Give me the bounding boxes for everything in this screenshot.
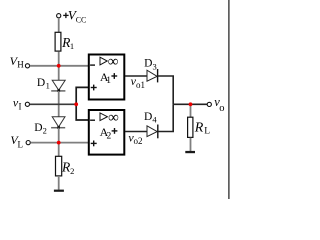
node VL junction [57, 141, 61, 145]
svg-text:D: D [144, 57, 152, 69]
node output junction [189, 102, 193, 106]
wire R2 to ground [58, 176, 60, 190]
svg-text:2: 2 [70, 166, 74, 176]
node vI junction [74, 102, 78, 106]
label vI [13, 95, 22, 111]
label vo2 [128, 131, 142, 147]
wire D4 to output bus [158, 104, 173, 131]
svg-text:1: 1 [70, 41, 74, 51]
wire node VL to A2 noninverting input [59, 142, 89, 144]
svg-text:o1: o1 [136, 80, 145, 90]
label +VCC [63, 7, 86, 24]
svg-text:1: 1 [46, 81, 50, 91]
diode D3 [147, 69, 158, 82]
label vo [214, 95, 224, 114]
diode D2 [51, 117, 65, 129]
label D3 [144, 57, 157, 71]
resistor R2 [56, 156, 62, 176]
svg-text:H: H [17, 60, 24, 70]
svg-text:L: L [204, 127, 210, 137]
svg-text:D: D [37, 77, 45, 89]
svg-text:3: 3 [153, 61, 157, 71]
svg-text:∞: ∞ [108, 54, 119, 70]
terminal +VCC [57, 14, 61, 18]
resistor R1 [55, 32, 61, 51]
wire R1 to D1 through node VH [58, 52, 60, 81]
label R1 [61, 35, 74, 51]
wire output bus to terminal vo [173, 103, 207, 105]
svg-text:D: D [34, 122, 42, 134]
svg-text:2: 2 [107, 131, 112, 141]
label R2 [61, 159, 74, 175]
svg-text:4: 4 [152, 114, 157, 124]
op-amp A1 [89, 54, 125, 99]
wire A1 output to D3 [125, 75, 147, 77]
terminal VL [26, 141, 30, 145]
terminal vo [207, 102, 211, 106]
svg-text:o2: o2 [134, 136, 143, 146]
label VH [10, 54, 25, 70]
resistor RL [188, 117, 193, 137]
svg-text:o: o [219, 103, 224, 114]
label D2 [34, 122, 47, 136]
svg-text:R: R [194, 120, 204, 135]
svg-text:2: 2 [43, 125, 47, 135]
wire node vI down to A2 inverting input [76, 104, 88, 120]
svg-text:L: L [18, 139, 24, 149]
label RL [194, 120, 211, 136]
label D1 [37, 77, 50, 91]
wire D2 to R2 through node VL [58, 128, 60, 156]
wire D3 to output bus [158, 76, 174, 104]
svg-text:D: D [144, 111, 152, 123]
node VH junction [57, 64, 61, 68]
ground (RL) [185, 151, 195, 153]
svg-text:I: I [19, 101, 22, 111]
ground (R2) [54, 190, 64, 192]
wire vI terminal to node vI [30, 103, 76, 105]
op-amp A2 [89, 110, 125, 155]
wire node vI up to A1 noninverting input [76, 87, 88, 104]
wire output node to RL [190, 104, 192, 117]
wire node VH to A1 inverting input [59, 65, 89, 67]
svg-text:CC: CC [76, 15, 87, 24]
terminal VH [25, 64, 29, 68]
diode D4 [147, 125, 158, 139]
wire A2 output to D4 [125, 131, 147, 133]
diode D1 [51, 80, 65, 92]
wire VH terminal to node VH [30, 65, 59, 67]
label vo1 [131, 74, 145, 90]
label D4 [144, 111, 157, 125]
wire D1 to D2 through node vI [58, 91, 60, 117]
svg-text:1: 1 [106, 76, 111, 86]
terminal vI [25, 102, 29, 106]
svg-text:∞: ∞ [108, 110, 119, 126]
wire VL terminal to node VL [31, 142, 59, 144]
wire VCC to R1 [58, 18, 60, 33]
label VL [10, 133, 23, 149]
wire RL to ground [190, 138, 192, 151]
